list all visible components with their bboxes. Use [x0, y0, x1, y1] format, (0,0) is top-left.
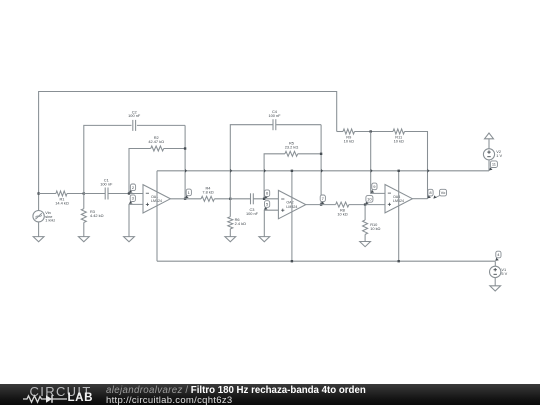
- node B: R4/R6/C3/C4 junction: [229, 198, 231, 200]
- op-amp OA1: [143, 185, 170, 213]
- node: R2 tap on minus input: [128, 192, 130, 194]
- resistor R1: [39, 193, 56, 195]
- svg-text:2.4 kΩ: 2.4 kΩ: [235, 221, 246, 226]
- svg-text:10 kΩ: 10 kΩ: [394, 139, 404, 144]
- op-amp OA3: [385, 185, 412, 213]
- capacitor C4 (feedback): [230, 125, 272, 199]
- svg-text:10 kΩ: 10 kΩ: [337, 212, 347, 217]
- svg-text:4.42 kΩ: 4.42 kΩ: [90, 213, 104, 218]
- pin 4: [496, 257, 497, 261]
- pin 10: [365, 201, 367, 204]
- svg-text:14.4 kΩ: 14.4 kΩ: [55, 201, 69, 206]
- svg-text:10 kΩ: 10 kΩ: [370, 226, 380, 231]
- svg-text:7.8 kΩ: 7.8 kΩ: [202, 190, 213, 195]
- resistor R3: [83, 194, 85, 209]
- svg-text:42.47 kΩ: 42.47 kΩ: [148, 139, 164, 144]
- wire: OA1 feedback node vertical: [184, 125, 186, 198]
- wire: junction down to OA3 minus: [371, 132, 385, 194]
- ground: [360, 242, 371, 247]
- svg-text:5 V: 5 V: [501, 271, 507, 276]
- node: R8/R10 junction: [364, 203, 366, 205]
- voltage source V1: [494, 261, 496, 266]
- capacitor C3: [230, 198, 250, 200]
- capacitor C1: [84, 193, 105, 195]
- resistor R4: [170, 198, 201, 200]
- wire: OA3 output: [412, 198, 427, 200]
- svg-text:10: 10: [367, 196, 372, 201]
- node A: R1/R3/C1/C2 junction: [83, 192, 85, 194]
- pin 9: [371, 189, 373, 193]
- pin 7: [320, 201, 322, 204]
- resistor R9 (summing): [337, 131, 343, 133]
- pin 3: [129, 201, 131, 204]
- voltage source V2: [485, 133, 494, 139]
- svg-text:100 nF: 100 nF: [100, 182, 113, 187]
- resistor R11 (feedback): [393, 129, 405, 134]
- svg-text:10 kΩ: 10 kΩ: [344, 139, 354, 144]
- svg-text:1 V: 1 V: [496, 153, 502, 158]
- svg-text:100 nF: 100 nF: [128, 113, 141, 118]
- footer bar: [0, 384, 540, 405]
- resistor R2 (feedback): [129, 149, 151, 194]
- ground: [78, 237, 89, 242]
- svg-text:100 nF: 100 nF: [246, 211, 259, 216]
- CircuitLab logo: [30, 384, 92, 399]
- V- rail (to V2): [157, 170, 489, 172]
- resistor R8: [306, 204, 336, 206]
- pin 2: [129, 190, 131, 193]
- ground: [490, 286, 501, 291]
- voltage source Vin: [38, 194, 40, 211]
- ground: [259, 237, 270, 242]
- ground: [124, 237, 135, 242]
- node: R5 tap on OA2 minus input: [263, 198, 265, 200]
- op-amp OA2: [278, 190, 305, 218]
- wire hops on V- rail: [185, 169, 187, 173]
- resistor R10: [364, 205, 366, 220]
- svg-text:100 nF: 100 nF: [268, 113, 281, 118]
- ground: [33, 237, 44, 242]
- pin 8: [428, 195, 429, 198]
- resistor R5 (feedback): [264, 154, 285, 199]
- resistor R6: [229, 199, 231, 217]
- wire: OA2 feedback node vertical: [320, 125, 322, 205]
- node: input junction: [37, 192, 39, 194]
- node Vo flag: [434, 195, 441, 198]
- svg-text:1 kHz: 1 kHz: [45, 218, 55, 223]
- pin 11: [489, 167, 491, 171]
- V+ rail (to V1): [157, 260, 495, 262]
- wire: [38, 222, 40, 237]
- wire: OA2 + input to ground: [264, 210, 278, 236]
- pin 6: [264, 196, 265, 199]
- svg-text:Vo: Vo: [441, 190, 446, 195]
- svg-text:23.2 kΩ: 23.2 kΩ: [285, 145, 299, 150]
- capacitor C2 (feedback): [84, 125, 132, 193]
- node: R9/R11 junction: [370, 130, 372, 132]
- pin 1: [185, 195, 187, 199]
- ground: [225, 237, 236, 242]
- wire: OA1 + input to ground: [129, 204, 143, 236]
- pin 5: [264, 207, 265, 210]
- wire: input node up to top rail and across: [39, 92, 337, 194]
- op-amp power stubs: [156, 171, 158, 261]
